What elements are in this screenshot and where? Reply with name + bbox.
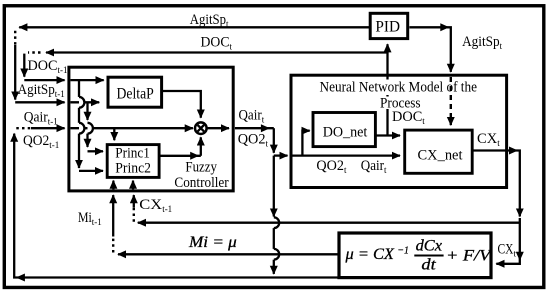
svg-text:DeltaP: DeltaP <box>117 85 154 102</box>
svg-text:Fuzzy: Fuzzy <box>185 160 217 176</box>
hop riser A over AgitSp line <box>79 97 84 108</box>
svg-text:Neural Network Model of the: Neural Network Model of the <box>320 79 478 95</box>
equation fraction bar <box>414 255 443 257</box>
PID box <box>370 13 408 38</box>
text background Process <box>378 97 424 110</box>
wire AgitSp_t-1 input <box>15 101 64 103</box>
wire riser A to Princ upper... lower input <box>79 170 103 172</box>
wire branch into NN box <box>274 154 288 156</box>
wire DOC_t feedback top <box>46 51 388 53</box>
svg-text:Controller: Controller <box>174 175 228 191</box>
wire DOC riser <box>23 54 25 77</box>
arrowhead CX riser corner <box>516 252 524 261</box>
wire DO_net output to CX_net <box>375 134 400 136</box>
multiplier X <box>198 125 204 131</box>
wire Qair_t QO2_t output <box>235 127 274 129</box>
wire bottom feedback to left riser <box>14 134 337 278</box>
wire feedback riser mid <box>273 156 275 217</box>
svg-text:DO_net: DO_net <box>323 124 368 140</box>
wire CX_t-1 arrow into fuzzy box <box>133 195 135 207</box>
DO_net box <box>313 113 375 147</box>
wire riser B lower <box>86 134 88 147</box>
wire Mi dotted riser <box>112 237 114 253</box>
multiplier circle <box>195 122 207 134</box>
arrowhead PID output corner <box>440 23 449 31</box>
wire AgitSp line inside box <box>71 101 100 103</box>
wire CX_t-1 dotted riser <box>133 208 135 222</box>
arrowhead Qair_t output corner <box>261 124 270 132</box>
wire CX_t feedback line <box>138 222 520 224</box>
wire Qair dotted lead <box>16 127 31 129</box>
wire riser A lower <box>78 134 80 168</box>
wire riser down to NN input <box>273 128 275 153</box>
svg-text:μ = CX: μ = CX <box>344 246 395 263</box>
wire Princ output to multiplier bottom <box>200 137 202 156</box>
wire riser B upper <box>86 102 88 120</box>
wire DO_net input branch <box>302 131 309 156</box>
hop feedback riser over CX line <box>274 217 279 228</box>
wire AgitSp_t feedback top <box>19 26 369 28</box>
svg-text:Princ1: Princ1 <box>115 146 150 162</box>
wire DOC dotted lead <box>28 51 41 53</box>
wire feedback riser lower <box>273 228 275 249</box>
wire PID output <box>409 27 450 72</box>
svg-text:AgitSpt: AgitSpt <box>190 12 229 29</box>
wire DOC_t-1 input <box>24 79 64 81</box>
wire QO2 Qair inside NN box <box>293 154 401 156</box>
wire riser A middle <box>78 108 80 123</box>
wire Mi arrow into Princ bottom <box>112 181 114 190</box>
wire Princ output horizontal <box>158 155 201 157</box>
svg-text:DOCt: DOCt <box>201 34 233 51</box>
svg-text:Princ2: Princ2 <box>115 161 151 177</box>
fuzzy controller box <box>69 67 233 191</box>
CX_net box <box>405 130 473 173</box>
wire riser A upper <box>78 80 80 97</box>
svg-text:PID: PID <box>375 19 400 36</box>
mu equation box <box>339 233 491 278</box>
wire CX_net output <box>472 151 520 217</box>
svg-text:dt: dt <box>421 257 436 274</box>
arrowhead bottom feedback left <box>16 274 25 282</box>
wire dashed AgitSp into CX_net <box>450 77 452 125</box>
svg-text:CX_net: CX_net <box>418 147 464 163</box>
Princ1/Princ2 box <box>107 145 159 178</box>
wire Mi = mu line <box>118 253 338 255</box>
hop riser A over Qair line <box>79 123 84 134</box>
svg-text:AgitSpt: AgitSpt <box>462 34 503 51</box>
neural network model box <box>291 75 507 187</box>
wire DeltaP output to multiplier <box>162 91 201 118</box>
svg-text:Qairt: Qairt <box>361 158 387 175</box>
wire AgitSp riser solid <box>14 45 16 100</box>
DeltaP box <box>108 77 162 107</box>
svg-text:+ F/V: + F/V <box>446 248 493 265</box>
svg-text:Qairt: Qairt <box>239 108 265 125</box>
svg-text:QO2t: QO2t <box>316 158 347 175</box>
svg-text:Mi = μ: Mi = μ <box>188 234 237 251</box>
hop feedback riser over Mi line <box>274 249 279 260</box>
wire Mi arrow into fuzzy box <box>112 195 114 236</box>
wire CX arrow into Princ bottom <box>132 181 134 190</box>
wire CX riser to mu box <box>496 218 520 264</box>
text background NN title <box>318 80 478 96</box>
arrowhead Princ output corner <box>190 152 199 160</box>
svg-text:DOCt: DOCt <box>392 109 425 126</box>
svg-text:CXt: CXt <box>477 131 500 148</box>
svg-text:QO2t: QO2t <box>238 132 269 149</box>
wire AgitSp dotted riser <box>14 31 16 45</box>
arrowhead CX_net output corner <box>509 147 518 155</box>
wire Qair branch into Princ top <box>113 128 115 140</box>
wire Qair_t-1 input <box>31 127 65 129</box>
wire feedback riser end <box>273 260 275 274</box>
wire multiplier output <box>207 127 229 129</box>
wire DOC line inside box <box>71 79 104 81</box>
wire DOC_t riser to PID <box>386 44 388 135</box>
hop riser B over Qair line <box>88 123 93 134</box>
wire riser B to Princ upper input <box>88 150 104 152</box>
svg-text:dCx: dCx <box>416 238 442 255</box>
svg-text:−1: −1 <box>397 245 409 257</box>
wire Qair line to multiplier <box>71 127 193 129</box>
